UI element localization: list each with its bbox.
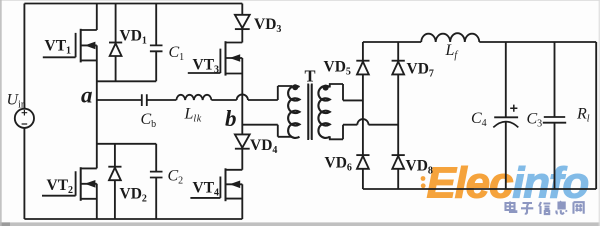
wire cell1 connector [97, 80, 156, 82]
wire right bridge leg [241, 4, 243, 220]
secondary dot [323, 85, 329, 91]
wire hop over left branch [357, 119, 368, 125]
wire left bridge leg [96, 4, 98, 220]
svg-text:a: a [81, 83, 93, 108]
wire output bottom rail [363, 188, 596, 190]
diode VD6 [356, 155, 369, 169]
wire bottom rail primary [24, 218, 242, 220]
wire bridge right branch [397, 42, 399, 189]
wire cell2 connector [97, 143, 156, 145]
diode VD5 [356, 61, 369, 75]
primary dot [292, 84, 298, 90]
diode VD1 [109, 4, 122, 82]
wire Llk to hop [211, 99, 236, 101]
transistor VT4 [190, 168, 242, 201]
wire node b to primary bottom [242, 125, 292, 137]
source Uin [15, 109, 34, 128]
wire top rail [24, 3, 242, 5]
transformer secondary winding [318, 86, 329, 138]
wire Cb to Llk [147, 99, 177, 101]
svg-text:Elecinfo: Elecinfo [427, 159, 589, 208]
wire hop to right branch [369, 124, 399, 126]
wire secondary top lead [330, 84, 363, 100]
capacitor C1 [150, 4, 163, 82]
svg-text:T: T [305, 67, 316, 86]
diode VD7 [392, 61, 405, 75]
信 [539, 202, 550, 214]
息 [556, 201, 566, 214]
diode VD2 [108, 144, 121, 219]
wire bridge left branch [362, 42, 364, 189]
watermark Elecinfo logo [421, 159, 589, 208]
wire hop over right leg [237, 94, 248, 100]
transistor VT1 [43, 29, 97, 63]
diode VD8 [392, 155, 405, 169]
inductor Llk [176, 95, 211, 100]
wire load branch [595, 42, 597, 189]
transformer core [308, 84, 312, 141]
capacitor C2 [150, 144, 163, 219]
电 [506, 202, 517, 213]
transformer T primary winding [288, 86, 299, 138]
edge artifacts [0, 222, 600, 226]
capacitor Cb [142, 94, 147, 106]
transistor VT2 [42, 167, 97, 201]
wire hop to primary top [248, 86, 292, 100]
svg-text:b: b [225, 106, 237, 131]
inductor Lf [421, 33, 479, 42]
子 [521, 203, 533, 214]
wire output top rail [363, 41, 596, 43]
diode VD3 [235, 15, 250, 29]
capacitor C4 electrolytic [493, 42, 518, 189]
diode VD4 [235, 134, 250, 148]
watermark chinese 电子信息网 [506, 201, 584, 214]
wire node a to Cb [97, 99, 142, 101]
wire left column (Uin branch) [23, 4, 25, 220]
capacitor C3 [543, 42, 566, 189]
transistor VT3 [188, 41, 243, 75]
wire secondary bottom lead [330, 125, 358, 140]
网 [574, 202, 584, 214]
